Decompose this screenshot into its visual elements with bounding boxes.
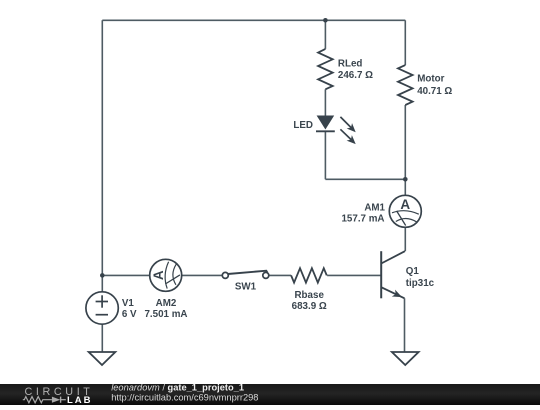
- svg-text:157.7 mA: 157.7 mA: [341, 214, 384, 225]
- resistor Rbase: [291, 268, 327, 282]
- wire SW1 to Rbase: [269, 274, 291, 276]
- wire bottom horizontal of LED branch: [325, 178, 405, 180]
- svg-text:RLed: RLed: [338, 58, 363, 69]
- ammeter AM2 (rotated 90 CCW): [150, 259, 182, 291]
- svg-text:LED: LED: [293, 120, 313, 131]
- wire Rbase to Q1 base: [327, 274, 381, 276]
- svg-text:V1: V1: [122, 298, 135, 309]
- svg-text:A: A: [400, 197, 410, 212]
- transistor Q1: [381, 251, 405, 298]
- wire right vertical to Motor: [404, 20, 406, 65]
- logo diode: [52, 397, 60, 403]
- svg-text:Q1: Q1: [406, 266, 420, 277]
- svg-text:tip31c: tip31c: [406, 278, 435, 289]
- ground left: [89, 352, 116, 365]
- wire RLed top drop: [324, 20, 326, 49]
- ammeter AM1: [389, 195, 421, 227]
- svg-text:A: A: [151, 270, 166, 280]
- wire RLed bottom to LED: [324, 89, 326, 116]
- resistor Motor: [398, 65, 413, 105]
- diode LED: [316, 116, 356, 145]
- svg-text:AM1: AM1: [364, 203, 385, 214]
- svg-text:6 V: 6 V: [122, 309, 137, 320]
- resistor RLed: [318, 49, 333, 89]
- wire V1 bottom to ground: [101, 324, 103, 352]
- wire junction to V1 top: [101, 275, 103, 292]
- wire AM1 bottom to Q1 collector: [404, 227, 406, 251]
- svg-text:683.9 Ω: 683.9 Ω: [292, 301, 327, 312]
- svg-text:246.7 Ω: 246.7 Ω: [338, 70, 373, 81]
- svg-text:Motor: Motor: [417, 74, 444, 85]
- wire AM2 to SW1: [182, 274, 223, 276]
- wire junction to AM2: [102, 274, 150, 276]
- svg-text:40.71 Ω: 40.71 Ω: [417, 86, 452, 97]
- wire LED bottom: [324, 131, 326, 179]
- wire Q1 emitter to ground: [404, 298, 406, 352]
- switch SW1: [222, 271, 268, 279]
- node junction top (RLed tap): [323, 18, 328, 23]
- LED light arrow 1: [340, 117, 355, 132]
- node junction left (V1 tap): [100, 273, 105, 278]
- LED light arrow 2: [340, 129, 355, 144]
- svg-text:SW1: SW1: [235, 282, 257, 293]
- svg-text:AM2: AM2: [156, 298, 177, 309]
- wire top horizontal: [102, 19, 405, 21]
- voltage source V1: [86, 292, 118, 324]
- svg-text:leonardovm / gate_1_projeto_1: leonardovm / gate_1_projeto_1: [111, 383, 244, 393]
- logo resistor zigzag: [23, 397, 52, 403]
- ground right: [392, 352, 419, 365]
- wire Motor bottom to AM1 top: [404, 105, 406, 195]
- svg-text:LAB: LAB: [67, 395, 93, 405]
- svg-text:7.501 mA: 7.501 mA: [144, 309, 187, 320]
- svg-text:http://circuitlab.com/c69nvmnp: http://circuitlab.com/c69nvmnprr298: [111, 392, 258, 402]
- node junction LED/Motor bottom: [403, 177, 408, 182]
- svg-text:Rbase: Rbase: [294, 290, 324, 301]
- wire left vertical: [101, 20, 103, 275]
